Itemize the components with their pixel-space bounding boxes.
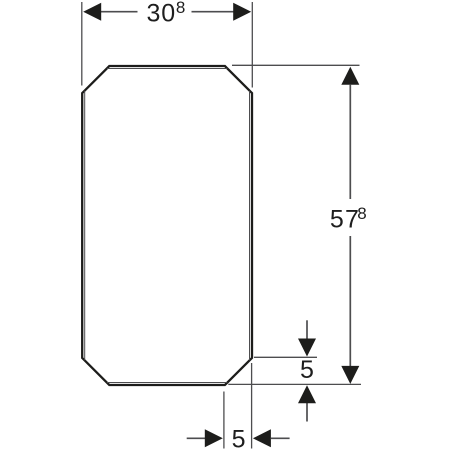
dimension tail 5 vertical upper <box>306 320 308 339</box>
dimension tail 5 horizontal right <box>271 437 290 439</box>
arrowhead 5 horizontal left (right-pointing) <box>205 429 223 447</box>
arrowhead 57.8 top <box>341 67 359 85</box>
dimension line 57.8 upper segment <box>349 85 351 199</box>
svg-text:5: 5 <box>300 356 314 384</box>
svg-text:5: 5 <box>232 425 246 450</box>
dimension line 30.8 right segment <box>192 11 234 13</box>
arrowhead 30.8 right <box>233 3 251 21</box>
svg-text:57: 57 <box>330 205 360 233</box>
extension line left (30.8 width) <box>81 2 83 86</box>
extension line right (5 horizontal) <box>251 363 253 449</box>
extension line chamfer corner (5 vertical) <box>254 356 317 358</box>
plate inner edge left <box>84 91 86 361</box>
svg-text:30: 30 <box>147 0 176 27</box>
plate inner edge top <box>107 68 227 70</box>
extension line top (57.8 height) <box>232 64 360 66</box>
dimension tail 5 vertical lower <box>306 403 308 422</box>
arrowhead 5 horizontal right (left-pointing) <box>253 429 271 447</box>
dimension line 57.8 lower segment <box>349 236 351 366</box>
dimension line 30.8 left segment <box>101 11 138 13</box>
arrowhead 5 vertical lower (up) <box>298 385 316 403</box>
plate inner edge right <box>249 91 251 361</box>
svg-text:8: 8 <box>357 204 366 223</box>
svg-text:8: 8 <box>176 0 185 17</box>
extension line right (30.8 width) <box>251 2 253 88</box>
extension line left (5 horizontal) <box>223 392 225 449</box>
plate inner edge bottom <box>107 382 227 384</box>
dimension tail 5 horizontal left <box>187 437 205 439</box>
arrowhead 5 vertical upper (down) <box>298 339 316 357</box>
extension line bottom-right (57.8 height / chamfer 5) <box>228 383 361 385</box>
arrowhead 30.8 left <box>83 3 101 21</box>
plate outline outer <box>82 66 252 385</box>
arrowhead 57.8 bottom <box>341 366 359 384</box>
